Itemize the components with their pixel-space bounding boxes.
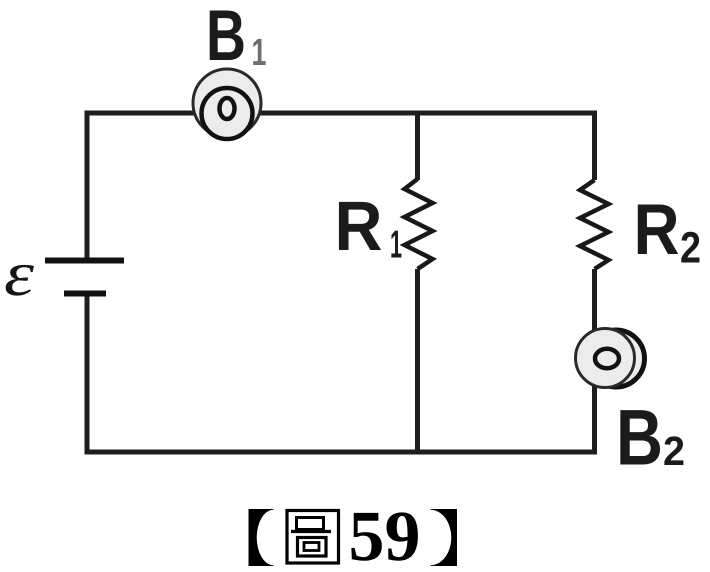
svg-text:2: 2 xyxy=(663,428,685,474)
svg-text:1: 1 xyxy=(390,224,402,267)
svg-text:B: B xyxy=(616,393,663,482)
svg-text:2: 2 xyxy=(680,224,701,273)
svg-text:1: 1 xyxy=(252,32,267,74)
svg-text:R: R xyxy=(335,187,383,265)
svg-text:R: R xyxy=(634,190,680,270)
svg-text:B: B xyxy=(206,0,246,76)
svg-text:ε: ε xyxy=(4,238,35,309)
svg-text:59: 59 xyxy=(349,496,421,572)
